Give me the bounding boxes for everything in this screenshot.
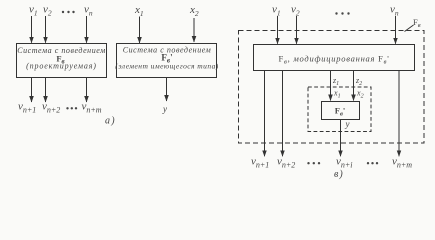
svg-text:(элемент имеющегося типа): (элемент имеющегося типа)	[115, 62, 219, 71]
svg-text:Система с поведением: Система с поведением	[123, 46, 212, 55]
svg-text:y: y	[162, 104, 167, 114]
svg-text:(проектируемая): (проектируемая)	[26, 62, 97, 71]
svg-text:а): а)	[105, 116, 116, 127]
svg-text:в): в)	[334, 169, 344, 180]
svg-text:y: y	[345, 119, 350, 129]
